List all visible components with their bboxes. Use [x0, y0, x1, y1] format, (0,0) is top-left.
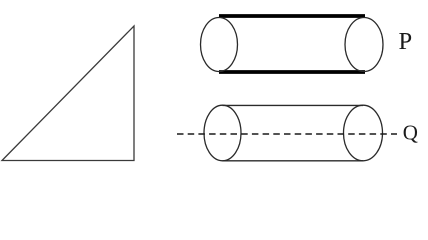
svg-text:P: P [399, 28, 413, 55]
svg-text:Q: Q [403, 120, 418, 144]
